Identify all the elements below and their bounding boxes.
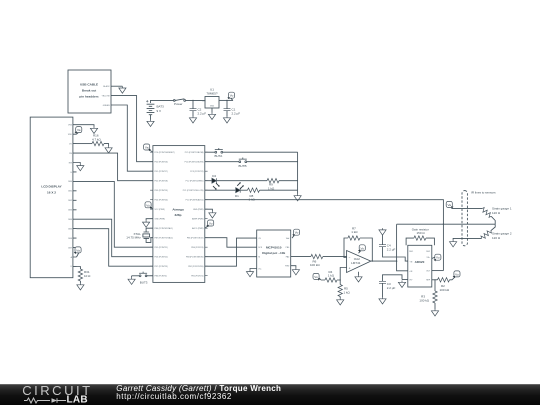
svg-text:RG2: RG2 — [426, 251, 430, 253]
svg-text:1 kΩ: 1 kΩ — [268, 186, 275, 190]
svg-text:PD3 (PCINT19): PD3 (PCINT19) — [155, 190, 169, 192]
svg-text:LCD DISPLAY: LCD DISPLAY — [41, 185, 62, 189]
svg-text:Vo: Vo — [436, 256, 440, 260]
svg-text:BAT3: BAT3 — [157, 105, 165, 109]
svg-text:2.2 µF: 2.2 µF — [387, 247, 396, 251]
svg-text:+: + — [349, 266, 351, 270]
svg-text:Vss: Vss — [258, 268, 261, 270]
svg-text:GREEN: GREEN — [103, 105, 110, 107]
svg-text:Break out: Break out — [82, 89, 96, 93]
svg-text:PC6 (PCINT14/RESET): PC6 (PCINT14/RESET) — [155, 152, 175, 154]
svg-text:Power: Power — [174, 102, 183, 106]
svg-text:PB3 (PCINT3/MOSI): PB3 (PCINT3/MOSI) — [186, 257, 204, 259]
svg-text:RW: RW — [69, 162, 72, 164]
svg-text:100 kΩ: 100 kΩ — [440, 288, 450, 292]
svg-text:DB0: DB0 — [68, 181, 72, 183]
svg-text:14.75 MHz: 14.75 MHz — [126, 236, 141, 240]
svg-text:PD2 (PCINT18): PD2 (PCINT18) — [155, 181, 169, 183]
svg-text:78M05?: 78M05? — [206, 91, 217, 95]
svg-text:DB6: DB6 — [68, 238, 72, 240]
svg-text:PW0: PW0 — [285, 266, 289, 268]
svg-text:2.2 µF: 2.2 µF — [387, 286, 396, 290]
svg-text:PD5 (PCINT21): PD5 (PCINT21) — [155, 247, 169, 249]
svg-text:PB0 (PCINT0): PB0 (PCINT0) — [155, 276, 167, 278]
svg-text:PC2 (PCINT10/RED): PC2 (PCINT10/RED) — [186, 181, 204, 183]
svg-text:DB4: DB4 — [68, 219, 72, 221]
svg-text:Vo: Vo — [209, 222, 213, 226]
svg-text:Vo: Vo — [146, 203, 150, 207]
svg-text:PD1 (PCINT17): PD1 (PCINT17) — [155, 171, 169, 173]
svg-text:LAB: LAB — [67, 395, 88, 405]
svg-text:Va: Va — [447, 203, 451, 207]
svg-text:PC3 (PCINT11): PC3 (PCINT11) — [190, 171, 203, 173]
svg-text:Digital pot ~10k: Digital pot ~10k — [262, 251, 285, 255]
svg-text:PB2 (PCINT2/SS): PB2 (PCINT2/SS) — [188, 266, 203, 268]
svg-text:MCP41010: MCP41010 — [266, 245, 282, 249]
svg-text:USB CABLE: USB CABLE — [80, 83, 98, 87]
svg-text:PB6 (PCINT6/XTAL1): PB6 (PCINT6/XTAL1) — [155, 227, 174, 230]
svg-text:16 X 2: 16 X 2 — [47, 191, 56, 195]
svg-text:1 kΩ: 1 kΩ — [344, 290, 351, 294]
svg-text:LM741: LM741 — [351, 261, 361, 265]
svg-text:VCC (PWR): VCC (PWR) — [155, 209, 166, 211]
svg-text:1 kΩ: 1 kΩ — [351, 230, 358, 234]
svg-text:328p: 328p — [174, 213, 181, 217]
svg-text:DB3: DB3 — [68, 210, 72, 212]
svg-text:BUTA: BUTA — [215, 154, 223, 158]
svg-text:DB1: DB1 — [68, 191, 72, 193]
svg-text:−: − — [349, 256, 351, 260]
svg-text:PC1 (PCINT9/YELLOW): PC1 (PCINT9/YELLOW) — [183, 190, 204, 192]
svg-text:pin headders: pin headders — [79, 95, 99, 99]
svg-text:2.2 µF: 2.2 µF — [232, 112, 241, 116]
svg-text:PA0: PA0 — [286, 256, 289, 259]
svg-text:Atmega: Atmega — [172, 208, 184, 212]
svg-text:120 Ω: 120 Ω — [492, 211, 501, 215]
svg-text:IR lines to sensors: IR lines to sensors — [471, 191, 496, 195]
svg-text:AVCC (PWR): AVCC (PWR) — [192, 227, 204, 230]
svg-text:Vo: Vo — [314, 275, 318, 279]
svg-text:100 kΩ: 100 kΩ — [419, 299, 429, 303]
svg-text:D2: D2 — [212, 174, 216, 178]
svg-text:VDD: VDD — [68, 134, 73, 136]
svg-text:Va: Va — [145, 146, 149, 150]
svg-text:Vo: Vo — [295, 231, 299, 235]
svg-text:PC0 (PCINT8/ADC0): PC0 (PCINT8/ADC0) — [186, 199, 204, 202]
svg-text:PB5 (PCINT5/SCK): PB5 (PCINT5/SCK) — [187, 238, 204, 240]
svg-text:Va: Va — [77, 128, 81, 132]
svg-text:Vdd: Vdd — [286, 238, 289, 240]
svg-text:PB4 (PCINT4): PB4 (PCINT4) — [191, 247, 203, 249]
svg-text:4.7 kΩ: 4.7 kΩ — [92, 138, 102, 142]
svg-text:PC4 (PCINT12/BUTB): PC4 (PCINT12/BUTB) — [185, 162, 204, 164]
svg-text:10 Ω: 10 Ω — [84, 274, 91, 278]
svg-text:BUT3: BUT3 — [140, 280, 148, 284]
svg-text:120 Ω: 120 Ω — [492, 236, 501, 240]
svg-text:9 V: 9 V — [157, 109, 162, 113]
svg-text:YELLOW: YELLOW — [102, 95, 110, 97]
svg-text:GND (PWR): GND (PWR) — [193, 209, 204, 211]
svg-text:Va: Va — [76, 248, 80, 252]
svg-text:AREF (PWR): AREF (PWR) — [192, 218, 204, 221]
svg-text:PD4 (PCINT20): PD4 (PCINT20) — [155, 200, 169, 202]
svg-text:BUTB: BUTB — [239, 164, 247, 168]
svg-text:DB5: DB5 — [68, 228, 72, 230]
svg-text:1 kΩ: 1 kΩ — [328, 274, 335, 278]
svg-text:GND: GND — [210, 105, 215, 107]
svg-text:PB7 (PCINT7/XTAL2): PB7 (PCINT7/XTAL2) — [155, 237, 174, 240]
svg-text:PD7 (PCINT23): PD7 (PCINT23) — [155, 266, 169, 268]
svg-text:Vo: Vo — [455, 272, 459, 276]
svg-text:AD620: AD620 — [415, 260, 425, 264]
svg-text:RG1: RG1 — [409, 251, 413, 253]
svg-text:GND (PWR): GND (PWR) — [155, 219, 166, 221]
svg-text:PB0: PB0 — [286, 247, 290, 249]
svg-text:DB2: DB2 — [68, 200, 72, 202]
svg-text:PD0 (PCINT16): PD0 (PCINT16) — [155, 162, 169, 164]
svg-text:D1: D1 — [235, 194, 239, 198]
svg-text:1 kΩ: 1 kΩ — [249, 198, 256, 202]
svg-text:PC5 (PCINT13/BUTA): PC5 (PCINT13/BUTA) — [185, 151, 204, 154]
svg-text:100 kΩ: 100 kΩ — [310, 263, 320, 267]
svg-text:2.2 µF: 2.2 µF — [198, 112, 207, 116]
svg-text:DB7: DB7 — [68, 247, 72, 249]
svg-text:PB1 (PCINT1): PB1 (PCINT1) — [191, 276, 203, 278]
svg-text:Vo: Vo — [230, 94, 234, 98]
svg-text:150 Ω: 150 Ω — [417, 231, 426, 235]
svg-text:PD6 (PCINT22): PD6 (PCINT22) — [155, 257, 169, 259]
svg-text:BLACK: BLACK — [103, 85, 110, 88]
svg-text:Vo: Vo — [360, 246, 364, 250]
svg-text:VS−: VS− — [409, 279, 413, 281]
